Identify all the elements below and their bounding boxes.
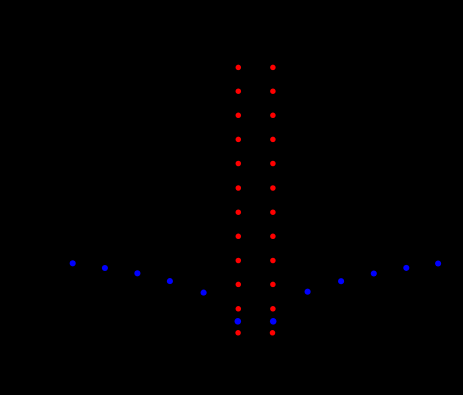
oxygen O1 (left column row 1) — [236, 65, 242, 71]
oxygen O16 (right column row 8) — [270, 234, 276, 240]
oxygen O5 (left column row 3) — [236, 113, 242, 119]
oxygen O22 (right column row 11) — [270, 306, 276, 312]
oxygen O17 (left column row 9) — [236, 258, 242, 264]
oxygen O21 (left column row 11) — [236, 306, 242, 312]
nitrogen N12 (right column) — [270, 318, 277, 325]
nitrogen N3 (left chain) — [134, 270, 140, 276]
oxygen O23 (left column bottom) — [235, 330, 241, 336]
nitrogen N5 (left chain) — [201, 290, 207, 296]
oxygen O4 (right column row 2) — [270, 88, 276, 94]
oxygen O3 (left column row 2) — [236, 88, 242, 94]
nitrogen N7 (right chain) — [338, 278, 344, 284]
oxygen O18 (right column row 9) — [270, 258, 276, 264]
oxygen O12 (right column row 6) — [270, 185, 276, 191]
oxygen O6 (right column row 3) — [270, 113, 276, 119]
nitrogen N4 (left chain) — [167, 278, 173, 284]
oxygen O7 (left column row 4) — [236, 137, 242, 143]
oxygen O9 (left column row 5) — [236, 161, 242, 167]
oxygen O10 (right column row 5) — [270, 161, 276, 167]
oxygen O2 (right column row 1) — [270, 65, 276, 71]
oxygen O15 (left column row 8) — [236, 234, 242, 240]
nitrogen N10 (right chain) — [435, 260, 441, 266]
oxygen O8 (right column row 4) — [270, 137, 276, 143]
nitrogen N8 (right chain) — [371, 270, 377, 276]
nitrogen N6 (right chain) — [305, 289, 311, 295]
oxygen O24 (right column bottom) — [270, 330, 276, 336]
nitrogen N1 (left chain) — [70, 260, 76, 266]
oxygen O20 (right column row 10) — [270, 282, 276, 288]
nitrogen N2 (left chain) — [102, 265, 108, 271]
nitrogen N9 (right chain) — [403, 265, 409, 271]
oxygen O13 (left column row 7) — [236, 209, 242, 215]
oxygen O14 (right column row 7) — [270, 209, 276, 215]
oxygen O11 (left column row 6) — [236, 185, 242, 191]
nitrogen N11 (left column) — [235, 318, 242, 325]
oxygen O19 (left column row 10) — [236, 282, 242, 288]
